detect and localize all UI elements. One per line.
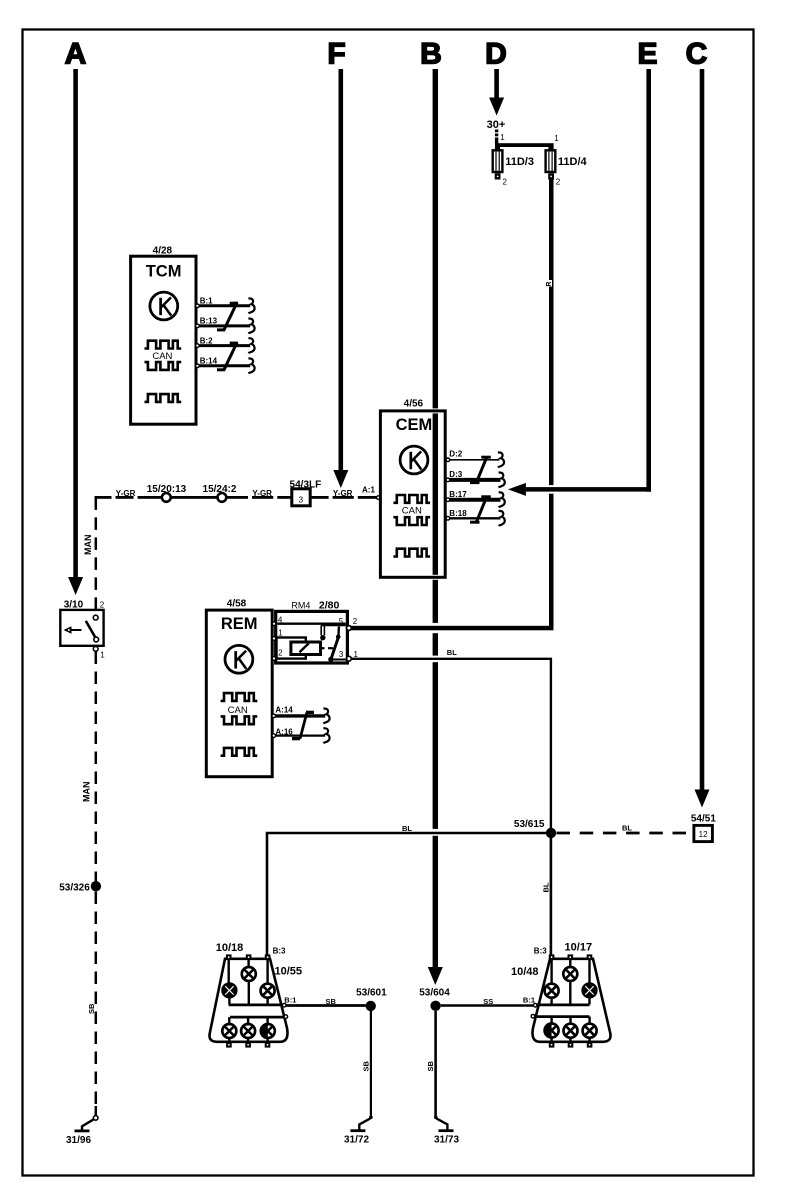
dashed wire to 54/51 [557,832,694,835]
svg-text:BL: BL [622,824,632,833]
white notches where B crosses CEM edges [431,408,439,413]
svg-text:A: A [65,38,87,71]
svg-text:REM: REM [221,615,258,633]
svg-text:1: 1 [500,133,505,142]
svg-text:53/604: 53/604 [419,988,450,999]
twisted pair slash TCM B:1/B:13 [217,302,238,330]
lamp 10/18 top [242,967,256,981]
svg-text:BL: BL [402,824,412,833]
svg-text:R: R [546,282,553,287]
svg-text:RM4: RM4 [291,601,310,611]
relay switch arm [331,637,339,659]
svg-text:CAN: CAN [152,351,172,362]
relay coil to switch dashed link [321,647,325,649]
svg-text:D:2: D:2 [449,450,462,459]
wire 30+ to fuse rail [495,130,498,144]
twisted pair slash CEM D:2/D:3 [470,456,491,483]
wire E horizontal with crossing gap [547,485,556,494]
dashed wire MAN (A branch) lower [95,652,98,1108]
svg-text:11D/4: 11D/4 [558,156,588,168]
svg-text:D: D [485,38,507,71]
R wire colour label [544,280,552,287]
svg-text:31/96: 31/96 [66,1135,91,1146]
svg-text:B:3: B:3 [534,946,547,955]
internal wires top [229,958,268,1005]
svg-text:Y-GR: Y-GR [333,489,353,498]
svg-text:SB: SB [326,997,337,1006]
svg-text:CAN: CAN [228,705,248,716]
lamp 10/18 left (filled) [222,983,237,998]
svg-text:BL: BL [542,882,551,892]
svg-text:SS: SS [483,997,493,1006]
bus 1 [537,1004,590,1007]
svg-text:B:1: B:1 [523,995,535,1004]
svg-text:MAN: MAN [83,535,93,556]
relay edge pin circles left [272,622,276,626]
twisted pair slash REM A:14/A:16 [292,712,314,738]
svg-text:SB: SB [426,1060,435,1071]
svg-text:11D/3: 11D/3 [505,156,534,168]
svg-text:D:3: D:3 [449,470,462,479]
svg-text:SB: SB [361,1060,370,1071]
wire fuse 11D/4 down to relay [549,180,554,629]
svg-text:TCM: TCM [146,263,182,281]
ground 31/96 [66,1116,98,1147]
svg-text:B:14: B:14 [200,357,218,366]
ground 31/73 [434,1116,459,1146]
lamp cluster 10/48 10/17 (right) [511,941,611,1047]
svg-text:B:3: B:3 [273,946,286,955]
svg-text:53/615: 53/615 [514,819,545,830]
svg-text:BL: BL [447,648,457,657]
fuse feed rail [495,143,554,147]
svg-text:A:14: A:14 [275,705,293,714]
svg-text:10/48: 10/48 [511,966,539,978]
svg-text:Y-GR: Y-GR [116,489,136,498]
svg-text:2: 2 [353,617,358,626]
CEM left pin circle [377,496,381,500]
svg-text:B:1: B:1 [200,296,213,305]
lamp cluster 10/18 (left) [210,942,303,1048]
svg-text:10/18: 10/18 [216,942,244,954]
TCM module 4/28 [131,246,196,425]
internal wires bottom [552,1017,590,1043]
relay right pins [347,626,352,631]
REM pin A:14 [272,705,330,723]
top pins [226,954,232,960]
bus 2 [535,1015,590,1018]
lamp 10/17 lower left (half filled) [545,1024,559,1038]
arrow E [508,483,526,496]
svg-text:5: 5 [339,617,344,626]
svg-text:B:13: B:13 [200,316,218,325]
arrow F [333,470,348,488]
bottom pins [549,1042,555,1048]
REM module 4/58 [206,599,272,777]
wire BL lamp feed left [432,829,440,836]
svg-text:3: 3 [339,650,344,659]
ground 31/72 [344,1116,373,1146]
svg-text:SB: SB [87,1003,96,1014]
lamp 10/48 [545,984,559,998]
svg-text:54/51: 54/51 [691,813,716,824]
internal wires bottom [229,1017,267,1042]
lamp 10/17 right (filled) [582,983,597,998]
wire relay output BL [432,656,440,663]
TCM pin B:1 [196,296,255,313]
svg-text:B:18: B:18 [449,509,467,518]
wire C [700,69,705,790]
twisted pair slash TCM B:2/B:14 [217,342,238,370]
svg-text:30+: 30+ [487,119,506,131]
dashed wire MAN (A branch) upper [95,497,98,608]
arrow B [428,967,443,985]
switch 3/10 [60,600,105,660]
fuse 11D/3 [493,147,503,180]
svg-text:1: 1 [554,134,559,143]
lamp 10/55 [261,984,275,998]
wire SS right cluster to splice [441,1004,533,1007]
svg-text:12: 12 [699,830,708,839]
wire BL down to right cluster [550,838,553,955]
REM pin A:16 [272,727,330,743]
lamp 10/18 lower left [222,1024,236,1038]
svg-text:4/56: 4/56 [404,399,424,410]
svg-text:4/58: 4/58 [227,599,247,610]
relay coil [291,642,321,655]
svg-text:31/73: 31/73 [434,1135,459,1146]
arrow C [695,790,710,808]
svg-text:A:1: A:1 [362,486,375,495]
svg-text:MAN: MAN [82,782,92,803]
wire Y-GR main run [95,496,378,499]
twisted pair slash CEM B:17/B:18 [470,496,491,523]
arrow D [489,98,504,116]
CEM pin D:2 [446,450,504,468]
svg-text:2/80: 2/80 [319,600,340,612]
svg-text:2: 2 [100,601,105,610]
svg-text:4: 4 [278,615,283,624]
svg-text:10/17: 10/17 [565,941,593,953]
svg-text:2: 2 [503,177,508,186]
lamp 10/18 lower right (half filled) [261,1024,275,1038]
svg-text:1: 1 [278,629,283,638]
lamp 10/17 lower right [583,1024,597,1038]
cluster outline [532,959,610,1042]
wire B (trunk) [433,69,438,967]
svg-text:E: E [637,38,657,71]
wire splice 53/604 to ground [434,1011,437,1116]
svg-text:B: B [420,38,442,71]
svg-text:2: 2 [556,177,561,186]
CEM pin D:3 [446,470,505,488]
fuse 11D/4 [546,147,556,180]
relay internal: row pin 4 [277,623,346,625]
Y-GR label 2 [248,496,252,499]
TCM pin B:13 [196,316,255,333]
wire D [494,69,499,98]
svg-text:53/601: 53/601 [356,988,387,999]
svg-text:1: 1 [100,651,105,660]
CEM module 4/56 [380,399,445,578]
bus 1 [229,1004,283,1007]
svg-text:CAN: CAN [402,506,422,517]
relay RM4 2/80 [272,600,358,664]
svg-text:B:1: B:1 [284,995,296,1004]
cluster outline [210,959,288,1042]
Y-GR label 1 [112,496,116,499]
Y-GR label 3 [329,496,333,499]
wire relay top feed horizontal [431,623,441,633]
svg-text:Y-GR: Y-GR [252,489,272,498]
svg-text:F: F [327,38,345,71]
wire A (feed) [73,69,78,577]
bus 2 [230,1016,284,1019]
svg-text:CEM: CEM [396,416,433,434]
svg-text:3: 3 [299,495,304,504]
relay internal: coil frame [277,638,306,659]
lamp 10/17 top [563,967,577,981]
wire splice 53/601 to ground [370,1011,372,1116]
TCM pin B:2 [196,336,255,353]
wire F [339,69,344,470]
arrow A [68,577,83,595]
svg-text:2: 2 [278,649,283,658]
svg-text:53/326: 53/326 [59,882,90,893]
top pins [549,954,555,960]
lamp 10/18 lower mid [241,1024,255,1038]
CEM pin B:18 [446,509,505,526]
svg-text:10/55: 10/55 [275,966,303,978]
internal wires top [552,958,590,1005]
relay switch contact 5 [321,624,346,626]
lamp 10/17 lower mid [564,1024,578,1038]
svg-text:31/72: 31/72 [344,1135,369,1146]
svg-text:C: C [686,38,708,71]
wire E vertical [646,69,651,492]
TCM pin B:14 [196,357,255,374]
svg-text:B:2: B:2 [200,336,213,345]
wire SB left cluster to splice [286,1004,366,1007]
CEM pin B:17 [446,490,505,507]
bottom pins [226,1042,232,1048]
